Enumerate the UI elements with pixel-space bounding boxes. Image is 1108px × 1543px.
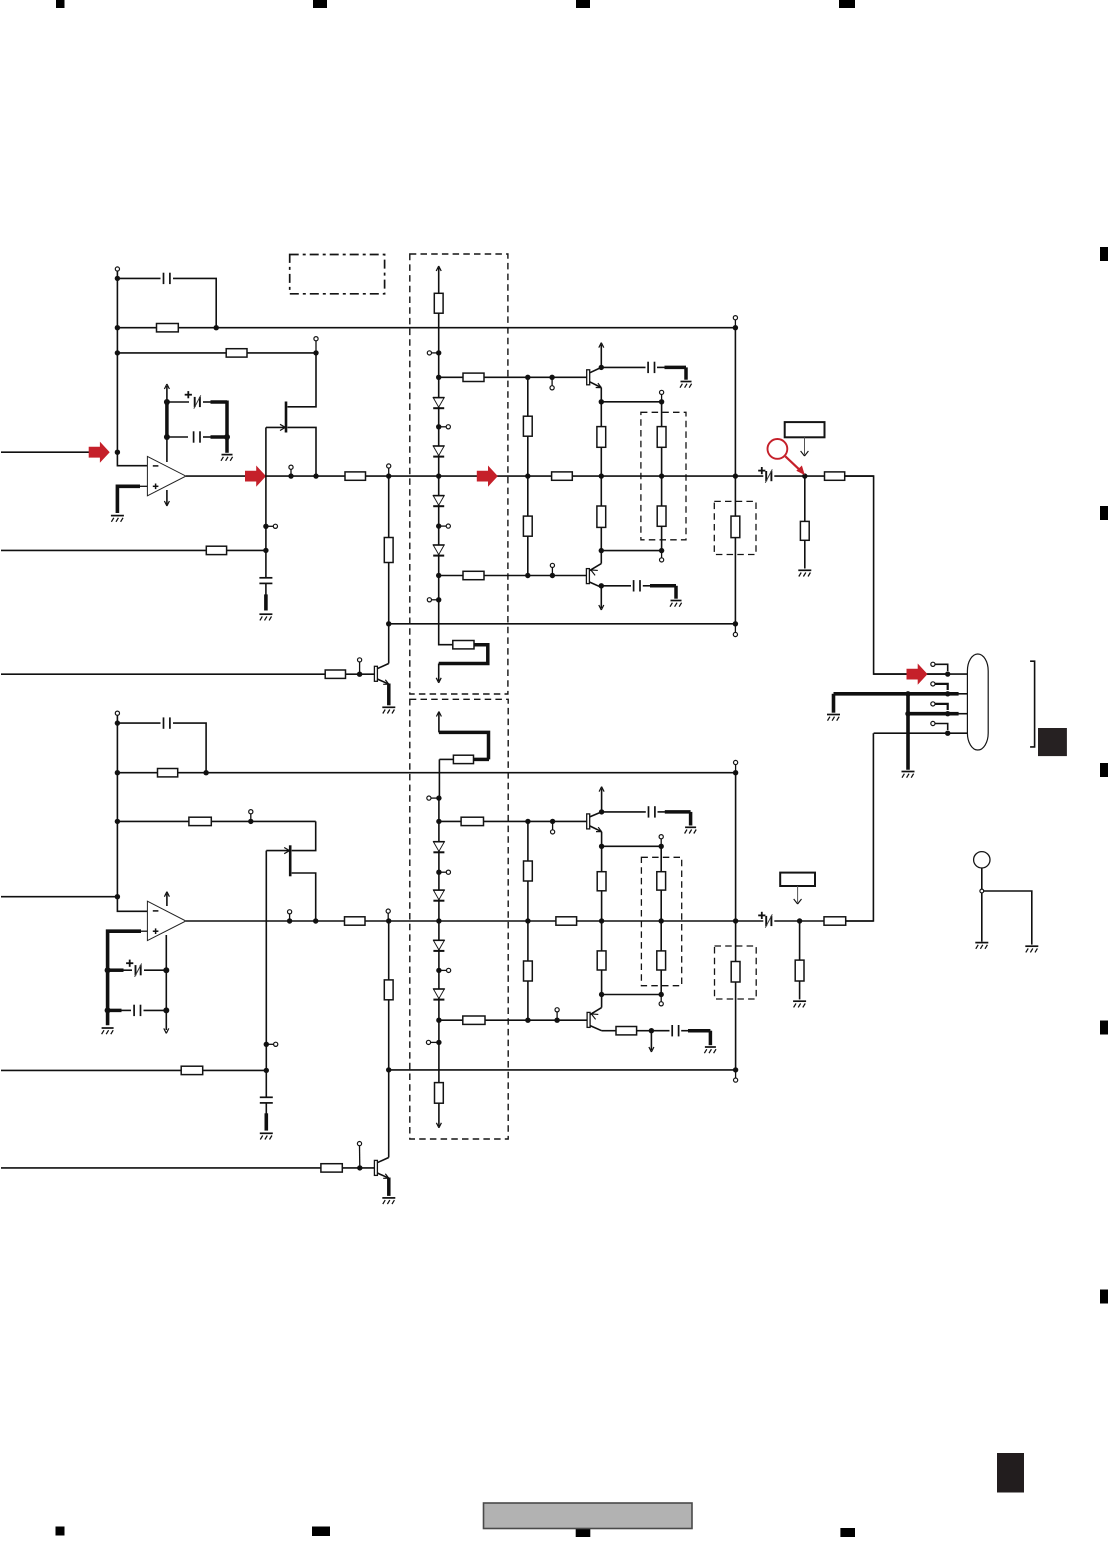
wire input line 2 xyxy=(1,896,117,898)
ground decoupling ch1 xyxy=(221,455,233,461)
junction lower emitter right ch1 xyxy=(659,548,664,553)
terminal circle emitter row ch1 xyxy=(660,390,664,402)
thick wire V+ decoupling ch1 xyxy=(165,402,169,437)
resistor R22 (feedback ch2) xyxy=(189,817,211,825)
resistor R1 (feedback) xyxy=(157,324,179,332)
junction chain / base row upper ch1 xyxy=(436,375,441,380)
black square bottom right xyxy=(997,1453,1024,1493)
jfet Q5 gate arrow xyxy=(284,848,289,854)
junction V+ / C3 ch1 xyxy=(164,434,170,440)
junction chain tp0 ch2 xyxy=(436,795,441,800)
junction row3 xyxy=(945,711,950,716)
resistor R32 emitter left ch2 xyxy=(597,846,606,921)
terminal circle Q8 base ch2 xyxy=(357,1142,361,1168)
junction rail1-left ch2 xyxy=(115,770,120,775)
rail -B ch1 (y624) xyxy=(389,623,736,625)
terminal circle fb-right ch1 xyxy=(314,337,318,353)
thick wire Q4 emitter ch1 xyxy=(387,684,391,706)
junction row2 xyxy=(945,691,950,696)
resistor R18 fb ch1 xyxy=(384,538,393,563)
capacitor C7 mute ch1 xyxy=(259,578,272,584)
junction Q1 source / main line xyxy=(313,473,318,478)
wire chain ch2 xyxy=(438,798,440,1070)
registration mark bottom 1 xyxy=(56,1527,65,1536)
capacitor C11 output electrolytic ch2 xyxy=(765,914,772,927)
capacitor C4 output electrolytic ch1 xyxy=(765,469,772,482)
wire inverting input jog ch1 xyxy=(117,452,147,466)
thick ground bus vertical xyxy=(906,694,910,770)
capacitor C13 collector lower ch2 xyxy=(672,1025,678,1036)
black square connector label xyxy=(1038,728,1067,756)
junction chain / base row lower ch1 xyxy=(436,573,441,578)
junction output node ch2 xyxy=(797,918,802,923)
junction main / rail vertical ch1 xyxy=(733,473,738,478)
plus sign C11 ch2 xyxy=(758,912,765,919)
op-amp V+ line ch1 xyxy=(166,386,168,462)
junction lower base tp ch1 xyxy=(550,573,555,578)
connector CN1 body xyxy=(967,654,988,750)
capacitor C10 ch2 xyxy=(108,1005,167,1016)
diode D8 ch2 xyxy=(433,989,445,1000)
terminal circle row4 xyxy=(931,721,948,730)
wire R37 to node ch2 xyxy=(637,1030,652,1032)
capacitor C1 (feedback) xyxy=(164,273,170,284)
resistor R14 driver left ch1 xyxy=(597,476,606,550)
junction C9 right ch2 xyxy=(163,967,169,973)
wire emitter row upper ch2 xyxy=(602,845,662,847)
label box ch2 xyxy=(780,873,815,886)
junction C10 right ch2 xyxy=(163,1007,169,1013)
terminal circle rail1-right ch1 xyxy=(733,316,737,328)
arrow +B collector ch2 xyxy=(599,787,604,812)
red arrow after op-amp ch1 xyxy=(245,466,266,487)
junction lower base tp ch2 xyxy=(554,1018,559,1023)
junction main / emitter R left ch2 xyxy=(599,918,604,923)
registration mark top 4 xyxy=(839,0,855,8)
wire mute line ch1 xyxy=(1,549,266,551)
registration mark right 2 xyxy=(1100,506,1108,520)
op-amp U1 ch1 xyxy=(147,456,186,495)
thick wire mute cap ground ch1 xyxy=(264,594,268,610)
junction emitter row right ch2 xyxy=(659,844,664,849)
wire vas vertical ch2 xyxy=(527,821,529,1020)
arrow V+ ch2 xyxy=(164,892,169,906)
resistor R13 emitter right ch1 xyxy=(657,402,666,476)
junction C3 right ch1 xyxy=(224,434,230,440)
wire chain top ch1 xyxy=(438,313,440,353)
junction chain / base row lower ch2 xyxy=(436,1018,441,1023)
transistor Q7 base bar ch2 xyxy=(587,1012,590,1027)
red arrow mid main ch1 xyxy=(477,466,498,487)
junction lower emitter right ch2 xyxy=(659,992,664,997)
ground under +input ch1 xyxy=(111,516,124,522)
jfet Q5 source lead xyxy=(292,873,316,921)
terminal circle chain tp2 ch1 xyxy=(439,524,451,528)
transistor Q4 base bar ch1 xyxy=(374,666,377,681)
wire gate vertical ch2 xyxy=(265,851,267,1071)
junction rail1-right ch1 xyxy=(733,325,738,330)
jack contact circle xyxy=(980,889,984,893)
wire emitter row upper ch1 xyxy=(601,401,661,403)
junction Q7 collector node ch2 xyxy=(649,1028,654,1033)
transistor Q6 collector lead ch2 xyxy=(590,812,602,817)
thick wire C6 to ground ch1 xyxy=(674,586,678,599)
resistor R5 output ch1 xyxy=(825,472,845,480)
thick ground bus row3 xyxy=(908,712,967,716)
ground C12 ch2 xyxy=(685,827,697,833)
terminal circle main tp2 ch1 xyxy=(387,464,391,476)
wire input bus vertical ch1 xyxy=(116,271,118,452)
terminal circle input bus top ch2 xyxy=(115,711,119,715)
junction chain tp1 ch2 xyxy=(436,870,441,875)
junction speaker row1 xyxy=(945,671,950,676)
registration mark top 2 xyxy=(313,0,327,8)
resistor R27 chain top ch2 xyxy=(453,755,473,763)
terminal circle chain tp2 ch2 xyxy=(439,968,451,972)
resistor R10 vas lower ch1 xyxy=(523,516,532,536)
junction rail2 right ch2 xyxy=(733,1067,738,1072)
junction Q8 base ch2 xyxy=(357,1165,362,1170)
resistor R16 base lower ch1 xyxy=(463,571,484,579)
op-amp V- line ch2 xyxy=(165,935,167,1030)
transistor Q2 base bar ch1 xyxy=(587,370,590,385)
resistor R3 main ch1 xyxy=(345,472,366,480)
ground C5 ch1 xyxy=(680,382,692,388)
wire C1 row xyxy=(117,278,216,327)
wire row2 to connector xyxy=(948,692,968,696)
wire emitter row lower ch2 xyxy=(602,994,662,996)
wire rail vertical ch1 xyxy=(734,328,736,624)
capacitor C12 collector ch2 xyxy=(649,806,655,817)
main signal line ch2 xyxy=(186,920,874,922)
wire non-inverting input thick ch1 xyxy=(117,486,147,513)
terminal circle chain tp0 ch2 xyxy=(427,796,439,800)
resistor R6 vertical output ch1 xyxy=(800,476,809,568)
thick wire C12 to ground ch2 xyxy=(689,812,693,826)
terminal circle emitter row ch2 xyxy=(659,835,663,847)
diode D5 ch2 xyxy=(433,842,445,853)
junction rail1-left ch1 xyxy=(115,325,120,330)
red arrow input 1 xyxy=(89,442,110,463)
wire base row upper ch2 xyxy=(439,820,587,822)
wire output to connector ch2 xyxy=(846,733,874,921)
plus sign C2 ch1 xyxy=(185,391,192,398)
resistor R35 driver right ch2 xyxy=(657,921,666,995)
wire Q8 base row ch2 xyxy=(1,1167,374,1169)
junction main / emitter R right ch2 xyxy=(659,918,664,923)
junction mute / gate ch1 xyxy=(263,548,268,553)
resistor R17 rail ch1 xyxy=(731,516,740,538)
junction chain / base row upper ch2 xyxy=(436,819,441,824)
capacitor C2 electrolytic ch1 xyxy=(167,395,227,408)
plus sign C9 ch2 xyxy=(126,960,133,967)
junction gate tp ch2 xyxy=(264,1042,269,1047)
junction output node ch1 xyxy=(802,473,807,478)
thick wire C13 to ground ch2 xyxy=(709,1031,713,1046)
junction mute / gate ch2 xyxy=(264,1068,269,1073)
capacitor C6 collector lower ch1 xyxy=(634,580,640,591)
wire collector row lower ch2 xyxy=(602,1030,616,1032)
wire mute cap ch1 xyxy=(265,550,267,595)
junction Q6 collector ch2 xyxy=(599,809,604,814)
thick wire chain top ch2 xyxy=(439,732,489,759)
ground mute ch1 xyxy=(259,614,272,620)
resistor R20 mute ch1 xyxy=(206,546,226,554)
bracket right xyxy=(1030,661,1035,747)
jack contact wire xyxy=(984,891,1032,945)
diode D7 ch2 xyxy=(433,940,445,951)
terminal circle base row upper ch2 xyxy=(551,821,555,834)
resistor R4 main ch1 xyxy=(552,472,573,480)
ground Q8 ch2 xyxy=(382,1198,395,1204)
diode D2 ch1 xyxy=(433,446,445,457)
terminal circle base row lower ch2 xyxy=(555,1008,559,1021)
junction Q2 emitter row left ch1 xyxy=(599,399,604,404)
wire collector cap row ch2 xyxy=(602,811,691,813)
terminal circle chain tp0 ch1 xyxy=(427,351,438,355)
thick wire row2 left ground xyxy=(832,694,836,713)
resistor R21 (feedback ch2) xyxy=(158,769,178,777)
junction lower emitter left ch2 xyxy=(599,992,604,997)
terminal circle base row lower ch1 xyxy=(550,563,554,575)
terminal circle rail1-right ch2 xyxy=(734,760,738,772)
terminal circle gate tp ch2 xyxy=(266,1042,278,1046)
jfet Q1 channel bar xyxy=(285,402,288,433)
terminal circle gate tp ch1 xyxy=(266,524,278,528)
junction rail1-right ch2 xyxy=(733,770,738,775)
junction main / vas ch1 xyxy=(525,473,530,478)
capacitor C3 ch1 xyxy=(167,431,227,442)
transistor Q7 collector lead ch2 xyxy=(590,1026,602,1031)
registration mark top 1 xyxy=(56,0,65,8)
junction V- / C9 ch2 xyxy=(105,967,111,973)
junction input bus / C8 row xyxy=(115,720,120,725)
junction base row tp ch2 xyxy=(550,819,555,824)
junction fb-left ch2 xyxy=(115,819,120,824)
junction rail2 left ch2 xyxy=(386,1067,391,1072)
wire inverting input jog ch2 xyxy=(117,897,147,912)
terminal circle row3 xyxy=(931,702,948,710)
resistor R40 Q8 base ch2 xyxy=(321,1164,342,1172)
terminal circle rail2 ch2 xyxy=(734,1070,738,1082)
wire feedback row ch2 xyxy=(117,820,315,822)
junction emitter row right ch1 xyxy=(659,399,664,404)
dashed box bias section ch1 xyxy=(410,254,508,694)
ground mute ch2 xyxy=(260,1133,273,1139)
terminal circle chain tp1 ch2 xyxy=(439,870,451,874)
wire collector cap row lower ch2 xyxy=(651,1030,710,1032)
junction chain tp2 ch2 xyxy=(436,968,441,973)
dashed box rail resistor ch2 xyxy=(715,946,757,999)
resistor R26 vertical output ch2 xyxy=(795,921,804,999)
wire emitter row lower ch1 xyxy=(601,550,661,552)
registration mark bottom 4 xyxy=(840,1528,855,1537)
terminal circle main tp1 ch1 xyxy=(289,465,293,476)
arrow -B chain bottom ch1 xyxy=(436,664,441,683)
resistor R9 vas upper ch1 xyxy=(523,416,532,436)
junction fb-right ch1 xyxy=(313,350,318,355)
junction input bus / C1 row xyxy=(115,276,120,281)
terminal circle chain tp1 ch1 xyxy=(439,425,451,429)
resistor R30 vas lower ch2 xyxy=(524,961,533,981)
gray title block xyxy=(484,1503,693,1529)
transistor Q4 collector lead ch1 xyxy=(377,664,388,669)
resistor R33 emitter right ch2 xyxy=(657,846,666,921)
ground connector left xyxy=(827,715,840,721)
junction fb-left ch1 xyxy=(115,350,120,355)
wire gate vertical ch1 xyxy=(265,427,267,550)
terminal circle lower emitter ch1 xyxy=(660,551,664,562)
wire feedback row y353 ch1 xyxy=(117,352,316,354)
resistor R8 chain bottom ch1 xyxy=(453,641,474,649)
resistor R24 main ch2 xyxy=(556,917,577,925)
ground C13 ch2 xyxy=(704,1047,716,1053)
resistor R29 vas upper ch2 xyxy=(524,861,533,881)
wire chain ch1 xyxy=(438,353,440,624)
jfet Q1 mute ch1 drain lead xyxy=(288,353,317,407)
wire fb vertical ch1 xyxy=(388,476,390,663)
label box ch1 xyxy=(785,422,825,437)
label box arrow ch2 xyxy=(794,886,802,904)
registration mark bottom 3 xyxy=(576,1528,591,1537)
thick ground bus row2 xyxy=(834,692,948,696)
terminal circle Q4 base ch1 xyxy=(358,658,362,674)
capacitor C8 (feedback ch2) xyxy=(164,717,170,728)
junction main / emitter R right ch1 xyxy=(659,473,664,478)
arrow -B collector ch2 xyxy=(649,1031,654,1052)
junction chain tp1 ch1 xyxy=(436,424,441,429)
terminal circle row2 xyxy=(931,682,948,690)
transistor Q2 emitter lead ch1 xyxy=(590,382,602,402)
junction V- / C10 ch2 xyxy=(105,1007,111,1013)
wire collector cap row ch1 xyxy=(601,366,686,368)
transistor Q7 emitter lead ch2 xyxy=(590,995,602,1020)
wire chain bottom elbow ch1 xyxy=(439,624,453,645)
dashed box rail resistor ch1 xyxy=(714,501,756,554)
junction main tp2 ch2 xyxy=(386,918,391,923)
transistor Q3 base bar ch1 xyxy=(586,569,589,584)
junction input node ch1 xyxy=(115,450,120,455)
op-amp V- line ch1 xyxy=(166,490,168,505)
junction chain tp0 ch1 xyxy=(436,350,441,355)
junction Q5 source / main line xyxy=(313,918,318,923)
junction lower base / vas ch1 xyxy=(525,573,530,578)
resistor R11 base upper ch1 xyxy=(463,373,484,381)
label box arrow ch1 xyxy=(801,437,809,456)
ground jack left xyxy=(975,943,988,949)
dashed box emitter resistors ch1 xyxy=(641,412,686,540)
wire chain top link ch2 xyxy=(439,759,489,798)
diode D1 ch1 xyxy=(433,398,445,409)
red arrow speaker ch1 xyxy=(907,664,928,685)
junction ground bus tee xyxy=(905,691,910,696)
capacitor C9 electrolytic ch2 xyxy=(108,964,167,977)
plus sign C4 ch1 xyxy=(758,467,765,474)
terminal circle input bus top ch1 xyxy=(115,267,119,271)
junction Q3 collector ch1 xyxy=(599,583,604,588)
op-amp U2 ch2 xyxy=(147,901,186,940)
arrow +B chain top ch1 xyxy=(436,266,441,293)
transistor Q6 base bar ch2 xyxy=(587,814,590,829)
transistor Q2 collector lead ch1 xyxy=(590,367,602,372)
wire base row lower ch2 xyxy=(439,1019,587,1021)
terminal circle base row upper ch1 xyxy=(550,377,554,390)
terminal circle main tp2 ch2 xyxy=(386,909,390,921)
resistor R7 chain top ch1 xyxy=(434,293,443,313)
resistor R15 driver right ch1 xyxy=(657,476,666,550)
junction chain tp3 ch1 xyxy=(436,597,441,602)
terminal circle rail2 ch1 xyxy=(733,624,737,637)
rail +B ch2 (y773) xyxy=(117,772,735,774)
arrow -B collector ch1 xyxy=(599,586,604,610)
wire base row lower ch1 xyxy=(439,575,587,577)
thick wire decoupling to ground ch1 xyxy=(225,401,229,453)
wire non-inverting input thick ch2 xyxy=(108,931,148,1025)
resistor R38 rail ch2 xyxy=(731,962,740,983)
junction main / vas ch2 xyxy=(525,918,530,923)
resistor R31 base upper ch2 xyxy=(461,817,483,825)
terminal circle row1 xyxy=(931,662,948,671)
wire C8 row xyxy=(117,723,206,773)
resistor R25 output ch2 xyxy=(824,917,846,925)
jack stem xyxy=(981,868,983,942)
ground C6 ch1 xyxy=(670,601,682,607)
registration mark right 1 xyxy=(1100,247,1108,261)
transistor Q8 emitter lead ch2 xyxy=(377,1173,389,1178)
capacitor C14 mute ch2 xyxy=(260,1097,273,1103)
thick wire Q8 emitter ch2 xyxy=(387,1178,391,1196)
junction main / rail vertical ch2 xyxy=(733,918,738,923)
jfet Q1 source lead xyxy=(288,427,317,476)
dashed box bias section ch2 xyxy=(410,699,508,1139)
junction main / emitter R left ch1 xyxy=(599,473,604,478)
junction base row / vas ch1 xyxy=(525,375,530,380)
dashed box emitter resistors ch2 xyxy=(641,857,681,985)
terminal circle lower emitter ch2 xyxy=(659,995,663,1006)
jfet Q5 gate lead xyxy=(266,850,289,852)
resistor R34 driver left ch2 xyxy=(597,921,606,995)
arrow +B chain top ch2 xyxy=(436,712,441,733)
resistor R36 base lower ch2 xyxy=(463,1016,485,1024)
resistor R2 (feedback) xyxy=(226,349,247,357)
junction lower emitter left ch1 xyxy=(599,548,604,553)
junction lower base / vas ch2 xyxy=(525,1018,530,1023)
wire vas vertical ch1 xyxy=(527,377,529,575)
junction main tp2 ch1 xyxy=(386,473,391,478)
diode D6 ch2 xyxy=(433,890,445,901)
junction main / diode chain ch2 xyxy=(436,918,441,923)
junction rail2 left ch1 xyxy=(386,621,391,626)
transistor Q6 emitter lead ch2 xyxy=(590,826,602,846)
terminal circle chain tp3 ch2 xyxy=(426,1040,439,1044)
junction input node ch2 xyxy=(115,894,120,899)
resistor R23 main ch2 xyxy=(345,917,366,925)
junction chain tp2 ch1 xyxy=(436,523,441,528)
terminal circle fb-mid ch2 xyxy=(249,810,253,822)
thick wire mute cap ground ch2 xyxy=(264,1113,268,1130)
transistor Q8 base bar ch2 xyxy=(374,1160,377,1175)
wire mute line ch2 xyxy=(1,1069,266,1071)
wire output to connector ch1 xyxy=(845,476,948,674)
junction gate tp ch1 xyxy=(263,524,268,529)
registration mark right 4 xyxy=(1100,1021,1108,1035)
jack circle xyxy=(974,852,990,868)
wire mute cap ch2 xyxy=(265,1070,267,1114)
diode D3 ch1 xyxy=(433,496,445,507)
resistor R12 emitter left ch1 xyxy=(597,402,606,476)
junction fb-mid ch2 xyxy=(248,819,253,824)
junction main tp1 ch1 xyxy=(288,473,293,478)
